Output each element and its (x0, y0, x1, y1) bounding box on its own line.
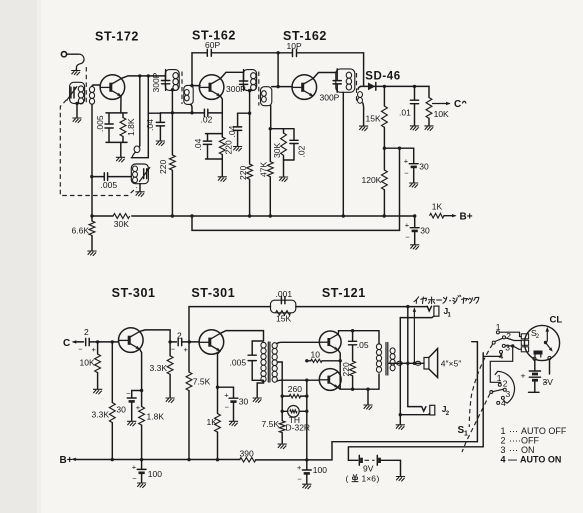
capacitor .005 plates (105, 124, 113, 128)
capacitor .001 (281, 297, 285, 304)
node stage3 bias (269, 127, 272, 130)
IFT3 tuning cap 300P (333, 69, 341, 92)
electrolytic 100 (first) (141, 460, 143, 469)
svg-text:.02: .02 (201, 115, 213, 125)
katakana label earphone jack (イヤホーン・ジャック) (414, 295, 479, 303)
svg-text:.01: .01 (399, 107, 411, 117)
svg-text:−: − (78, 344, 83, 353)
wires contacts to CL tabs (499, 332, 521, 336)
svg-text:30K: 30K (114, 219, 129, 229)
ground (antenna loop) (75, 69, 78, 71)
resistor 3.3K (Q4 bias) (111, 342, 113, 403)
IFT1 tuning cap 300P (162, 70, 170, 91)
speaker 4"x5" (424, 358, 429, 370)
svg-text:100: 100 (313, 465, 327, 475)
capacitor .005 (osc coupling) (92, 173, 132, 181)
svg-text:CL: CL (550, 315, 563, 326)
svg-text:+: + (521, 370, 526, 380)
svg-text:+: + (404, 157, 409, 166)
bias rail stage1/2 (148, 112, 192, 114)
capacitor .05 (349, 331, 357, 361)
resistor 260 (bias) (282, 395, 307, 397)
capacitor 60P (207, 49, 211, 56)
clock CL (524, 325, 559, 360)
svg-text:3: 3 (506, 389, 511, 399)
dashed mechanical links S1 (469, 344, 492, 427)
wire terminal to coupling loop (67, 53, 78, 55)
svg-text:B+: B+ (460, 212, 473, 223)
wire Q1 emitter to bias network (120, 96, 122, 113)
transistor Q4 (119, 328, 144, 353)
core (dashed) IFT3 (356, 73, 358, 104)
driver transformer T3 primary top/bottom frame (252, 341, 263, 398)
svg-text:220: 220 (158, 160, 168, 174)
IFT1 box (165, 70, 179, 91)
svg-text:15K: 15K (366, 113, 381, 123)
ground (jack common) (399, 413, 402, 416)
electrolytic +30 (B+ filter) (410, 216, 419, 228)
ground (output stage) (367, 389, 369, 404)
svg-text:ST-301: ST-301 (191, 286, 235, 300)
B+ bus (top section) (92, 215, 415, 217)
resistor 7.5K (Q5 bias) (188, 342, 190, 372)
scanner edge band left (0, 0, 37, 513)
IFT1 primary winding (173, 73, 178, 79)
electrolytic +30 (AVC filter) (409, 163, 418, 165)
wire IFT2 primary bottom down (248, 89, 251, 92)
svg-text:.005: .005 (101, 180, 118, 190)
legend (501, 426, 567, 464)
feedback line to J1 (189, 307, 427, 342)
wire IFT2 sec bottom down (270, 106, 272, 129)
capacitor .01 (410, 86, 418, 125)
resistor 15K (detector load) (383, 86, 385, 106)
svg-text:⋯: ⋯ (509, 426, 518, 436)
resistor 390 (in B+ line) (240, 458, 256, 463)
wire 10P junction down to Q3 base line (277, 53, 279, 87)
svg-text:1.8K: 1.8K (147, 411, 165, 421)
ground (30K/.02) (283, 160, 285, 177)
resistor 1K to B+ out (430, 213, 445, 218)
svg-text:.005: .005 (230, 357, 247, 367)
bias rail stage2/3 (238, 112, 250, 114)
capacitor .04 to ground (stage3 rail) (234, 113, 242, 146)
svg-text:1: 1 (501, 426, 506, 436)
jack J2 (408, 407, 426, 412)
core output transformer (386, 343, 388, 376)
svg-text:AUTO OFF: AUTO OFF (521, 426, 567, 436)
pot wiper arrow to C (433, 103, 450, 105)
svg-text:1: 1 (464, 431, 468, 438)
transistor Q6 (319, 331, 341, 353)
svg-text:(: ( (346, 474, 349, 484)
transistor Q1 (100, 75, 125, 100)
wire IFT1 primary bottom down (171, 88, 174, 91)
wire Q2 emitter down (220, 96, 222, 134)
osc trimmer plates + arrow (144, 169, 147, 179)
svg-text:.04: .04 (193, 138, 203, 150)
top feedback line 60P/10P (192, 53, 364, 87)
svg-text:30: 30 (419, 162, 429, 172)
svg-text:3V: 3V (543, 377, 554, 387)
resistor 10 (Q6 emitter) (307, 360, 340, 362)
svg-text:7.5K: 7.5K (262, 419, 280, 429)
IFT3 secondary coil (358, 86, 361, 89)
antenna coil windings (78, 86, 83, 92)
svg-text:7.5K: 7.5K (193, 376, 211, 386)
wire secondary centre tap down (277, 362, 282, 396)
variable capacitor VC1 plates (71, 87, 74, 98)
wire secondary bottom to Q7 base (277, 379, 319, 382)
svg-text:+: + (132, 462, 137, 471)
wire IFT1 sec bottom to bias rail (191, 104, 193, 112)
svg-text:300P: 300P (320, 93, 340, 103)
IFT1 secondary box (184, 85, 193, 104)
svg-text:C: C (63, 338, 70, 349)
thermistor TH D-32R (282, 410, 307, 412)
resistor 30K (in B+ line) (113, 214, 130, 219)
svg-text:+: + (297, 463, 302, 472)
coupling loop L1 (76, 54, 84, 69)
parallel .04 / 220 (Q2 emitter) rails (206, 134, 223, 159)
ground (Q2 emitter network) (221, 159, 223, 176)
bottom rail Q7 (338, 374, 379, 389)
svg-text:4: 4 (501, 454, 506, 464)
IFT3 box (336, 69, 355, 92)
resistor 30K (281, 133, 287, 155)
svg-text:−: − (404, 169, 409, 178)
resistor 1.8K (Q4 emitter) (139, 407, 145, 426)
wire down from J1 line (407, 307, 409, 407)
core (dashed) IFT1 (181, 72, 183, 105)
ground (antenna coil tap) (76, 103, 78, 117)
svg-text:3.3K: 3.3K (92, 410, 110, 420)
wire secondary top to Q1 base (92, 85, 100, 87)
ground (IFT3 secondary) (359, 126, 368, 131)
svg-text:−: − (126, 389, 131, 398)
variable capacitor VC1 arrow (67, 87, 77, 101)
svg-text:100: 100 (148, 469, 162, 479)
svg-text:AUTO ON: AUTO ON (520, 454, 561, 464)
transistor Q2 (199, 75, 224, 100)
svg-text:.001: .001 (276, 289, 293, 299)
wire Q6 collector / top rail (338, 331, 379, 344)
wiper arm upper deck (495, 338, 503, 341)
svg-text:220: 220 (238, 166, 248, 180)
capacitor 10P (293, 49, 297, 56)
svg-text:10K: 10K (80, 357, 95, 367)
svg-text:1K: 1K (432, 202, 443, 212)
electrolytic 30 (Q4 emitter bypass) (132, 391, 142, 398)
svg-text:1.8K: 1.8K (126, 118, 136, 136)
resistor 47K (269, 129, 271, 162)
svg-text:30: 30 (239, 397, 249, 407)
svg-text:C: C (454, 99, 461, 110)
wire secondary top to Q6 base (277, 342, 320, 343)
wire IFT3 primary bottom to B+ (342, 92, 344, 216)
wire Q5 base junction (189, 341, 199, 343)
wire IFT1 sec top to Q2 base (193, 85, 200, 87)
capacitor .02 (Q2 bias) (192, 109, 222, 116)
svg-text:+: + (405, 221, 410, 230)
transistor Q3 (292, 75, 317, 100)
IFT2 tuning cap 300P (240, 70, 248, 91)
IFT3 primary winding (346, 72, 351, 78)
resistor 220 (219, 137, 225, 154)
node fork osc feedback (138, 74, 141, 77)
resistor 7.5K (bias chain) (281, 396, 283, 421)
CL bottom terminals (533, 357, 536, 360)
svg-text:−: − (132, 474, 137, 483)
wiper arm lower deck (492, 389, 504, 392)
resistor 1.8K (120, 118, 126, 137)
svg-text:ST-121: ST-121 (322, 286, 366, 300)
capacitor .005 / resistor 1.8K parallel rails (106, 113, 127, 142)
svg-text:220: 220 (341, 362, 351, 376)
svg-text:10P: 10P (287, 41, 302, 51)
svg-text:+: + (224, 390, 229, 399)
svg-text:2: 2 (177, 330, 182, 340)
output transformer secondary (390, 348, 395, 354)
electrolytic 30 (Q5 emitter bypass) (218, 387, 234, 398)
S1 lower deck (495, 371, 514, 403)
battery 3V (534, 360, 536, 370)
ground (osc coil) (139, 184, 141, 192)
wire Q4 emitter down (140, 349, 142, 406)
driver transformer secondary winding (272, 343, 277, 349)
svg-text:.02: .02 (297, 145, 307, 157)
svg-text:ST-172: ST-172 (95, 30, 139, 44)
svg-text:.04: .04 (227, 125, 237, 137)
clock contact block (534, 351, 543, 355)
volume pot 10K (428, 86, 430, 97)
svg-text:260: 260 (288, 384, 302, 394)
wire IFT2 sec top to Q3 base (272, 86, 292, 88)
switch link lines to S1 (472, 342, 483, 447)
svg-text:220: 220 (223, 140, 233, 154)
svg-text:−: − (405, 233, 410, 242)
svg-text:4: 4 (501, 398, 506, 408)
AVC rail (lower) (192, 148, 400, 230)
svg-text:47K: 47K (259, 162, 269, 177)
svg-text:30: 30 (420, 226, 430, 236)
resistor 1K (Q5 emitter) (215, 414, 221, 433)
electrolytic 100 (second) (306, 460, 308, 470)
transistor Q7 (319, 369, 341, 391)
svg-text:6.6K: 6.6K (72, 225, 90, 235)
svg-text:3: 3 (505, 343, 510, 353)
svg-text:.05: .05 (357, 340, 369, 350)
speaker line (389, 362, 425, 364)
AVC branch to +30 cap (384, 148, 413, 163)
svg-text:15K: 15K (276, 314, 291, 324)
secondary coil T1b (89, 87, 94, 93)
resistor 120K (382, 170, 388, 190)
core driver transformer (268, 342, 270, 382)
capacitor .04 to ground (156, 113, 164, 141)
electrolytic 2 (interstage) (170, 338, 189, 345)
IFT2 primary winding (251, 73, 256, 79)
output transformer T4 winding (376, 344, 381, 350)
wire Q6 emitter down (338, 350, 340, 389)
wire to Q4 base (98, 341, 119, 343)
svg-text:SD-46: SD-46 (365, 71, 401, 83)
svg-text:1: 1 (497, 373, 502, 383)
svg-text:−: − (171, 344, 176, 353)
svg-text:30K: 30K (272, 143, 282, 158)
ground (Q1 emitter network) (120, 142, 122, 157)
svg-text:ST-301: ST-301 (112, 286, 156, 300)
svg-text:60P: 60P (205, 40, 220, 50)
antenna terminal (61, 52, 66, 57)
svg-text:2: 2 (84, 327, 89, 337)
wire Q5 collector to driver transformer (220, 331, 263, 341)
driver transformer primary winding (261, 342, 266, 348)
CL terminal tabs (521, 334, 528, 339)
antenna coil box T1 (70, 82, 85, 103)
feedback box .001/15K (271, 300, 296, 313)
capacitor .005 (primary bypass) (248, 355, 256, 360)
capacitor .04 plates (203, 141, 211, 144)
rail to 30K/.02 (270, 129, 294, 160)
wire Q4 collector to stage 2 (140, 330, 170, 342)
svg-text:120K: 120K (362, 175, 382, 185)
resistor 220 (IFT2 return) (249, 113, 251, 164)
resistor 220 (IFT1 return) (171, 113, 173, 155)
wire Q2 collector to IFT2 (221, 72, 244, 78)
core (dashed) IFT2 (258, 72, 260, 106)
electrolytic 2 (input) (86, 338, 98, 345)
wire Q5 emitter down (218, 351, 221, 414)
svg-text:4″×5″: 4″×5″ (441, 359, 461, 369)
wire secondary bottom down to B+ line (91, 104, 93, 216)
resistor 3.3K (stage2) to ground (169, 342, 171, 356)
svg-text:390: 390 (240, 449, 254, 459)
svg-text:+: + (92, 345, 97, 354)
IFT2 box (243, 70, 256, 91)
svg-text:1K: 1K (207, 417, 218, 427)
resistor 220 (damping) (350, 361, 356, 376)
resistor 6.6K to ground (91, 216, 93, 221)
svg-text:10: 10 (311, 349, 321, 359)
wire fork down to osc coil (139, 76, 141, 146)
svg-text:): ) (377, 474, 380, 484)
wire J1 sleeve down (399, 318, 401, 415)
svg-text:9V: 9V (363, 464, 374, 474)
osc feedback loop (134, 146, 140, 153)
core (dashed) antenna transformer (85, 67, 87, 104)
jack J1 (427, 306, 431, 311)
diode SD-46 (361, 85, 429, 87)
svg-text:−: − (297, 475, 302, 484)
transistor Q5 (199, 330, 224, 355)
svg-text:+: + (184, 345, 189, 354)
resistor 10K to ground (97, 342, 99, 354)
node J1 line (406, 305, 409, 308)
svg-text:−: − (225, 402, 230, 411)
oscillator coil box T2 (131, 164, 148, 184)
wire Q1 collector to IFT1 (121, 76, 165, 79)
svg-text:300P: 300P (151, 72, 161, 92)
svg-text:300P: 300P (226, 84, 246, 94)
svg-text:.005: .005 (95, 115, 105, 132)
resistor 15K (276, 311, 291, 315)
ground (driver transformer) (253, 398, 262, 403)
IFT2 secondary box (261, 87, 272, 106)
svg-text:3.3K: 3.3K (150, 363, 168, 373)
svg-text:2: 2 (503, 378, 508, 388)
svg-text:1×6: 1×6 (362, 474, 377, 484)
dashed tuning-gang link (60, 100, 137, 196)
svg-text:10K: 10K (434, 109, 449, 119)
battery 9V (348, 447, 483, 461)
svg-text:—: — (508, 454, 517, 464)
clock hands (546, 330, 548, 341)
arrow up (J1 switch) (413, 312, 415, 364)
wire Q3 collector to IFT3 (313, 73, 336, 79)
capacitor .02 plates (290, 140, 298, 143)
svg-text:B+: B+ (60, 455, 73, 466)
svg-text:.04: .04 (145, 119, 155, 131)
vertical rail Q7 base to B+ (306, 380, 308, 460)
svg-text:30: 30 (116, 404, 126, 414)
